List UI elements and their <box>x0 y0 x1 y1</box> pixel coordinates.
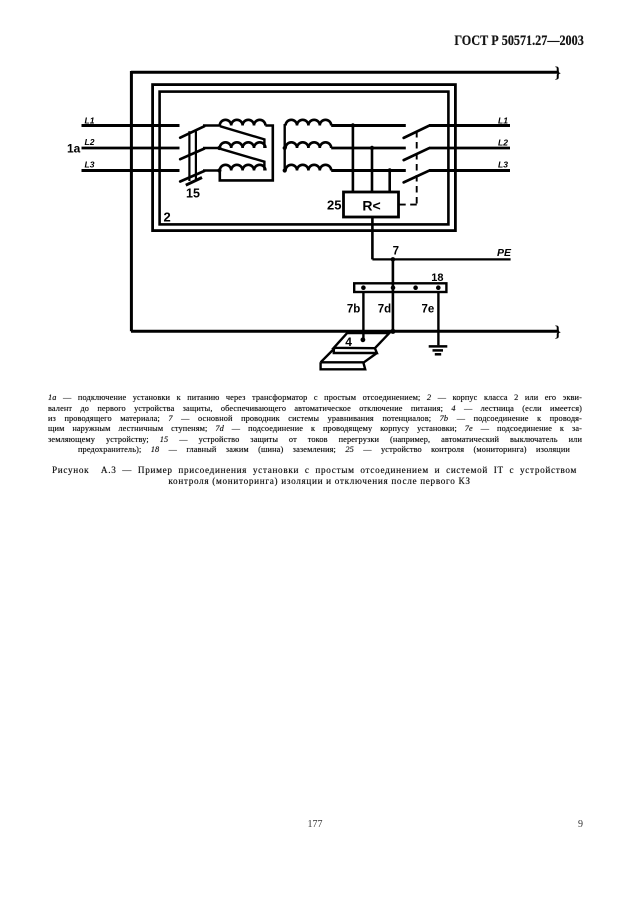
svg-text:L3: L3 <box>85 160 95 170</box>
svg-text:R<: R< <box>362 198 380 214</box>
svg-text:1а: 1а <box>67 141 81 155</box>
svg-text:}: } <box>555 323 561 340</box>
svg-text:18: 18 <box>431 272 443 284</box>
svg-text:L1: L1 <box>85 116 95 126</box>
svg-text:7b: 7b <box>347 304 360 316</box>
svg-text:7е: 7е <box>422 304 435 316</box>
svg-text:L1: L1 <box>498 115 508 125</box>
svg-text:2: 2 <box>164 209 171 224</box>
svg-text:L2: L2 <box>498 137 508 147</box>
svg-text:25: 25 <box>327 198 341 213</box>
svg-text:L3: L3 <box>498 159 508 169</box>
svg-text:PE: PE <box>497 247 512 259</box>
svg-text:}: } <box>555 64 561 81</box>
svg-text:7: 7 <box>393 246 399 258</box>
svg-text:7d: 7d <box>378 304 391 316</box>
svg-text:15: 15 <box>186 186 200 200</box>
svg-text:4: 4 <box>345 335 352 349</box>
svg-text:L2: L2 <box>85 137 95 147</box>
